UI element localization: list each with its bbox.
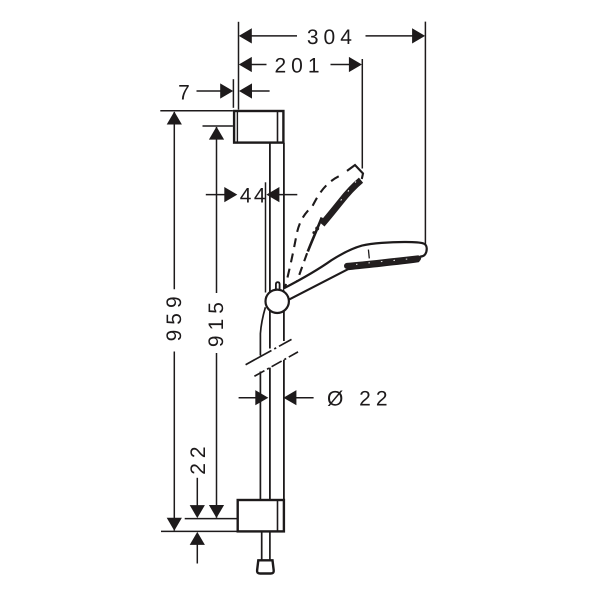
svg-text:Ø 22: Ø 22 <box>327 388 393 411</box>
dashed hand shower handle right outline <box>295 252 308 289</box>
svg-text:201: 201 <box>274 54 324 77</box>
extension line head right edge <box>424 22 426 245</box>
svg-text:7: 7 <box>178 82 190 105</box>
svg-text:22: 22 <box>187 441 210 474</box>
dimension diameter 22 <box>239 388 393 411</box>
dashed hand shower handle left outline <box>284 175 341 292</box>
svg-text:304: 304 <box>307 26 357 49</box>
break symbol <box>246 339 298 376</box>
top wall bracket <box>234 111 283 143</box>
dimension 959 vertical <box>160 111 233 531</box>
slider knob <box>266 290 289 313</box>
dimension 915 vertical <box>203 126 233 518</box>
dimension 44 with extension line <box>206 182 297 292</box>
dimension 201 <box>239 54 362 77</box>
extension line dashed head <box>361 59 363 169</box>
dashed face band speckle highlights <box>336 182 356 207</box>
bottom bracket <box>238 500 284 531</box>
hand shower body (solid) <box>284 242 427 300</box>
slider knob stem <box>276 282 280 290</box>
dimension 304 <box>239 26 425 49</box>
dashed hand shower handle right edge upper <box>308 218 322 252</box>
solid spray face band <box>347 258 418 266</box>
hose <box>260 307 270 560</box>
rail bar <box>270 143 284 500</box>
svg-text:915: 915 <box>205 297 228 347</box>
face band speckle highlights <box>356 259 413 265</box>
dashed hand shower head tip <box>347 165 363 179</box>
dashed face specks <box>315 227 319 231</box>
extension line wall plane <box>238 22 240 110</box>
dashed hand shower spray face band <box>322 180 361 224</box>
hose conical nut <box>257 560 274 573</box>
svg-text:44: 44 <box>240 184 268 207</box>
extension line rail end <box>185 518 237 520</box>
jet tick mark <box>367 250 370 259</box>
extension line bracket bottom <box>161 530 237 532</box>
dimension 7 <box>178 79 269 108</box>
dimension 22 vertical <box>187 441 210 563</box>
svg-text:959: 959 <box>163 291 186 341</box>
